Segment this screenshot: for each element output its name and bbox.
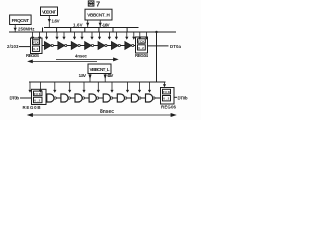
svg-text:VBBCNT_H: VBBCNT_H: [87, 13, 110, 18]
svg-text:VBBCNT_L: VBBCNT_L: [90, 67, 110, 72]
svg-text:REG04: REG04: [135, 53, 149, 58]
svg-text:FCK: FCK: [33, 41, 40, 45]
svg-text:VDDCNT: VDDCNT: [42, 10, 56, 15]
svg-text:1.6V: 1.6V: [73, 22, 83, 27]
svg-text:REG0B: REG0B: [23, 105, 41, 110]
svg-text:250MHz: 250MHz: [18, 26, 35, 31]
svg-text:0.2: 0.2: [138, 46, 144, 50]
svg-text:2/103: 2/103: [7, 44, 19, 49]
svg-text:0.2: 0.2: [33, 47, 38, 51]
svg-text:DT0a: DT0a: [170, 44, 182, 49]
svg-text:4nsec: 4nsec: [75, 53, 88, 58]
svg-text:1.5V: 1.5V: [79, 73, 87, 78]
svg-text:1.6V: 1.6V: [52, 18, 60, 23]
svg-text:0.2: 0.2: [163, 97, 169, 101]
svg-text:DT0b: DT0b: [178, 95, 188, 100]
svg-text:DT0b: DT0b: [10, 95, 20, 100]
svg-text:7: 7: [96, 0, 100, 9]
svg-text:REG06: REG06: [161, 104, 177, 109]
svg-text:-1.5V: -1.5V: [107, 73, 114, 78]
svg-text:FCK: FCK: [163, 90, 171, 94]
svg-text:0.2: 0.2: [34, 99, 40, 103]
svg-text:FRQCNT: FRQCNT: [12, 18, 30, 23]
svg-text:FCK: FCK: [138, 40, 145, 44]
svg-text:-1.6V: -1.6V: [102, 22, 110, 27]
svg-text:8nsec: 8nsec: [100, 109, 114, 115]
